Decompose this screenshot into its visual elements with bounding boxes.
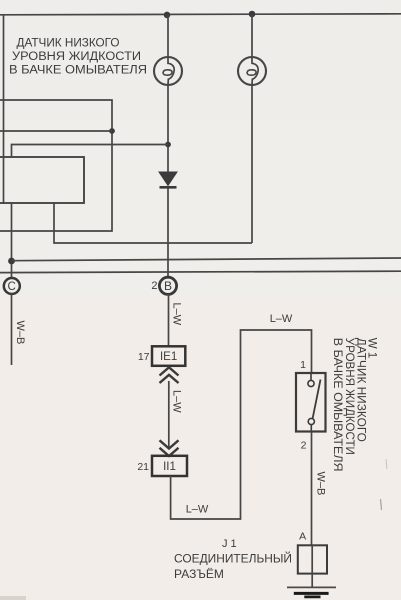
wire: connector B to junction IE1 — [168, 294, 170, 346]
svg-text:УРОВНЯ ЖИДКОСТИ: УРОВНЯ ЖИДКОСТИ — [12, 49, 141, 63]
junction connector J1 — [298, 545, 327, 573]
wire: switch W1 to junction connector J1 — [311, 432, 313, 546]
svg-text:1: 1 — [300, 359, 306, 371]
svg-text:W 1: W 1 — [366, 338, 378, 358]
relay block (partial, off page left) — [0, 157, 84, 203]
svg-text:ДАТЧИК НИЗКОГО: ДАТЧИК НИЗКОГО — [17, 36, 120, 50]
svg-text:В БАЧКЕ ОМЫВАТЕЛЯ: В БАЧКЕ ОМЫВАТЕЛЯ — [331, 338, 343, 472]
wire: branch into bracket junction — [0, 130, 112, 132]
wire: cowl main bus (thick) — [0, 271, 401, 272]
ground symbol — [287, 587, 336, 597]
svg-text:В БАЧКЕ ОМЫВАТЕЛЯ: В БАЧКЕ ОМЫВАТЕЛЯ — [9, 62, 147, 76]
junction node: relay feed joins diode wire — [165, 142, 171, 148]
junction node on top rail at lamp 2 — [249, 11, 256, 18]
label: washer fluid low level sensor (top left) — [9, 36, 147, 77]
wire: lamp 1 to diode — [167, 85, 169, 173]
wire: relay bracket loop — [0, 100, 112, 231]
top supply rail wire — [0, 14, 401, 15]
junction node on top rail at lamp 1 — [164, 12, 171, 19]
wire: W-B below connector C — [11, 293, 13, 365]
svg-text:II1: II1 — [163, 461, 176, 473]
left edge border wire — [3, 15, 5, 205]
svg-text:2: 2 — [301, 440, 307, 452]
svg-text:2: 2 — [151, 280, 157, 292]
svg-text:J 1: J 1 — [222, 538, 237, 550]
svg-text:L–W: L–W — [171, 303, 183, 326]
connector mating arrows (up, at IE1) — [160, 367, 179, 383]
wire: through J1 to ground — [311, 545, 313, 587]
svg-text:L–W: L–W — [171, 390, 183, 413]
junction node at bus — [8, 258, 15, 265]
scan speck — [386, 459, 387, 469]
wire: IE1 to II1 — [168, 381, 170, 447]
connector mating arrows (down, at II1) — [160, 440, 179, 456]
svg-text:L–W: L–W — [186, 504, 209, 516]
svg-text:УРОВНЯ ЖИДКОСТИ: УРОВНЯ ЖИДКОСТИ — [343, 338, 355, 455]
junction connector II1, pin 21 — [137, 456, 187, 476]
wire: relay top pin to diode junction — [12, 145, 169, 158]
svg-text:A: A — [299, 531, 306, 543]
scan speck — [381, 499, 382, 510]
svg-text:РАЗЪЁМ: РАЗЪЁМ — [174, 567, 224, 581]
wire: rail to lamp 2 — [251, 15, 253, 58]
junction node on bracket — [109, 128, 115, 134]
scan smudge bottom left — [0, 596, 26, 600]
connector B, pin 2 — [151, 277, 176, 294]
svg-text:IE1: IE1 — [160, 351, 177, 363]
connector C — [4, 278, 20, 294]
svg-text:C: C — [7, 281, 15, 293]
svg-text:W–B: W–B — [315, 472, 327, 496]
washer level switch W1 — [296, 373, 326, 432]
wire: relay pin to connector C — [11, 203, 13, 279]
svg-text:СОЕДИНИТЕЛЬНЫЙ: СОЕДИНИТЕЛЬНЫЙ — [174, 551, 292, 566]
junction connector IE1, pin 17 — [138, 346, 185, 366]
wire: diode to connector B — [167, 189, 169, 278]
svg-text:B: B — [164, 279, 172, 293]
lamp 1 (indicator bulb) — [154, 57, 182, 85]
wire: relay pin to lamp 2 branch — [54, 203, 252, 243]
wire: II1 down, right, up and over to switch W1 — [171, 330, 312, 519]
svg-text:17: 17 — [138, 351, 150, 363]
diode D (cathode down) — [159, 172, 177, 187]
lamp 2 (indicator bulb) — [238, 57, 266, 85]
svg-text:21: 21 — [137, 461, 149, 473]
wire: lamp 2 down — [251, 85, 253, 244]
wire: upper horizontal bus — [12, 258, 401, 261]
label block W 1 washer level sensor (rotated) — [331, 338, 377, 472]
wire: rail to lamp 1 — [167, 15, 169, 58]
svg-text:W–B: W–B — [14, 321, 26, 345]
svg-text:L–W: L–W — [270, 313, 293, 325]
